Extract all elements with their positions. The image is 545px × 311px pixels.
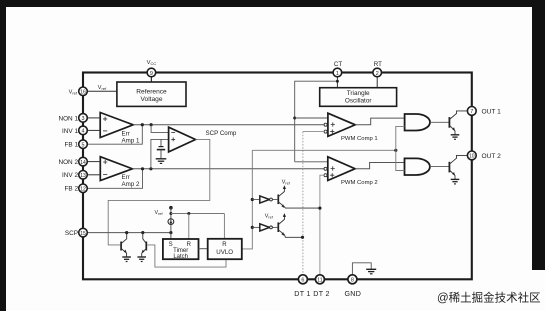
pin 14 NON 2 — [58, 157, 87, 166]
junction enable split — [394, 149, 397, 152]
wire: current source to SCP line and S input — [170, 225, 172, 240]
wire: UVLO output up to enable corner — [242, 150, 253, 249]
pin 13 INV 2 — [62, 171, 87, 180]
svg-text:Amp 1: Amp 1 — [122, 137, 140, 144]
svg-text:NON 1: NON 1 — [58, 115, 78, 122]
svg-text:Oscillator: Oscillator — [345, 98, 373, 105]
svg-text:8: 8 — [351, 278, 354, 284]
svg-text:FB 1: FB 1 — [65, 142, 79, 149]
wire: pin16 Vref to Reference Voltage box — [87, 90, 117, 92]
bubble PWM2 bottom input — [324, 174, 327, 177]
op-amp Err Amp 1 — [100, 113, 140, 145]
transistor Q4 dead-time 2 — [278, 213, 302, 237]
svg-text:Latch: Latch — [173, 254, 188, 260]
wire: AND2 output to Q2 base — [430, 166, 449, 168]
svg-text:2: 2 — [376, 71, 379, 77]
comparator SCP Comp — [169, 127, 237, 152]
block: Reference Voltage — [117, 82, 186, 106]
transistor Q1 output 1 — [449, 111, 467, 135]
battery reference on SCP comp input — [157, 139, 165, 158]
junction EA2 output to SCP comp — [149, 167, 152, 170]
current source for SCP timing — [168, 219, 174, 225]
wire: EA1 node down to SCP comp top input — [151, 125, 169, 133]
block: UVLO — [208, 239, 242, 259]
wire: into inverter 2 — [252, 226, 259, 228]
svg-text:DT 2: DT 2 — [313, 290, 329, 298]
pin 16 Vref — [69, 85, 107, 96]
svg-text:Reference: Reference — [136, 89, 167, 96]
svg-text:SCP: SCP — [65, 230, 78, 237]
ground for Q2 emitter — [451, 179, 460, 184]
svg-text:3: 3 — [82, 116, 85, 122]
node Vref supply arrow above current source — [169, 206, 173, 219]
AND gate 2 — [405, 158, 430, 175]
IC boundary box — [83, 73, 472, 280]
svg-text:Err: Err — [122, 174, 130, 181]
svg-text:SCP Comp: SCP Comp — [206, 130, 237, 137]
wire: into inverter 1 — [252, 199, 259, 201]
wire: Err Amp 1 output to PWM comp 1 — [133, 124, 324, 126]
wire: inverter 2 to Q4 base — [272, 226, 277, 228]
svg-text:PWM Comp 2: PWM Comp 2 — [341, 180, 378, 186]
inverter 2 — [260, 224, 273, 231]
wire: DT1 line from PWM comp 1 bottom input to pin 6 — [303, 131, 324, 133]
svg-text:12: 12 — [80, 187, 86, 193]
wire: sawtooth into PWM comp 1 top input — [295, 117, 328, 119]
junction Q3 emitter to DT2 — [318, 207, 321, 210]
wire: Vcc stub into Reference Voltage box — [150, 73, 152, 82]
svg-text:Voltage: Voltage — [141, 96, 163, 103]
svg-text:14: 14 — [80, 160, 86, 166]
svg-text:OUT 1: OUT 1 — [482, 108, 502, 115]
svg-text:DT 1: DT 1 — [294, 290, 310, 298]
junction EA1 output to SCP comp — [150, 123, 153, 126]
svg-text:PWM Comp 1: PWM Comp 1 — [341, 136, 378, 142]
junction sawtooth to PWM comp 1 — [293, 117, 296, 120]
comparator PWM Comp 1 — [328, 113, 378, 142]
junction FB1 on EA1 output — [141, 123, 144, 126]
svg-text:UVLO: UVLO — [216, 249, 233, 256]
junction FB2 on EA2 output — [141, 167, 144, 170]
pin 2 RT — [373, 61, 382, 77]
junction enable to inverter 1 — [251, 198, 254, 201]
wire: inverter 1 to Q3 base — [272, 199, 277, 201]
ground for T5 — [122, 257, 131, 262]
svg-text:15: 15 — [80, 231, 86, 237]
transistor T6 SCP latch — [142, 233, 147, 257]
svg-text:OUT 2: OUT 2 — [482, 153, 502, 160]
wire: enable line from UVLO node to AND gates — [252, 149, 395, 151]
ground for Q1 emitter — [451, 135, 460, 140]
wire: GND pin hook to ground — [352, 263, 371, 275]
junction T6 collector on SCP line — [141, 231, 144, 234]
svg-text:GND: GND — [344, 290, 361, 298]
wire: SCP comp output down and around to SCP transistor base — [108, 139, 210, 245]
svg-text:INV 2: INV 2 — [62, 172, 78, 179]
wire: Err Amp 2 output to PWM comp 2 — [132, 168, 324, 170]
bubble PWM1 middle input — [324, 123, 327, 126]
pin 11 DT 2 — [313, 275, 329, 298]
transistor Q3 dead-time 1 — [278, 185, 320, 208]
op-amp Err Amp 2 — [100, 157, 140, 189]
ground for SCP battery — [156, 159, 167, 164]
svg-text:Amp 2: Amp 2 — [122, 181, 140, 188]
pin 9 Vcc — [147, 60, 157, 77]
block: Timer Latch — [163, 239, 199, 260]
wire: UVLO bottom feedback to T6 base — [147, 245, 226, 267]
wire: DT2 line from PWM comp 2 bottom input to pin 11 — [320, 175, 324, 274]
pin 15 SCP — [65, 228, 87, 237]
wire: down to UVLO R input — [223, 214, 225, 239]
wire: PWM comp 2 output to AND gate 2 — [355, 163, 404, 169]
wire: PWM comp 1 output to AND gate 1 — [355, 118, 404, 125]
wire: pin4 to Err Amp 1 - input — [87, 129, 100, 131]
wire: sawtooth into PWM comp 2 top input — [295, 161, 328, 163]
svg-text:13: 13 — [80, 173, 86, 179]
svg-text:S: S — [169, 242, 173, 248]
svg-text:Err: Err — [122, 130, 130, 137]
svg-text:R: R — [222, 242, 227, 248]
wire: FB2 feedback loop — [87, 169, 143, 189]
junction T5 collector on SCP line — [125, 231, 128, 234]
svg-text:Vref: Vref — [98, 85, 107, 91]
svg-text:NON 2: NON 2 — [58, 159, 78, 166]
wire: CT stub to oscillator — [336, 73, 338, 88]
pin 10 OUT 2 — [467, 151, 501, 160]
svg-text:16: 16 — [80, 90, 86, 96]
wire: pin3 to Err Amp 1 + input — [87, 117, 100, 119]
dark frame right column — [532, 7, 545, 270]
bubble PWM1 bottom input — [324, 130, 327, 133]
svg-text:Vref: Vref — [69, 90, 78, 96]
pin 3 NON 1 — [58, 114, 87, 123]
wire: AND1 output to Q1 base — [430, 121, 449, 123]
svg-text:Timer: Timer — [173, 248, 188, 254]
pin 6 DT 1 — [294, 275, 310, 298]
wire: down to Timer Latch R input — [188, 214, 190, 240]
junction SCP line at Vref column — [169, 231, 172, 234]
pin 5 FB 1 — [65, 140, 88, 149]
wire: SCP pin line — [87, 232, 171, 234]
wire: Timer Latch to UVLO — [199, 248, 208, 250]
junction Vref column to R line — [169, 212, 172, 215]
pin 12 FB 2 — [65, 184, 88, 193]
ground for T6 — [137, 257, 146, 262]
svg-text:5: 5 — [82, 143, 85, 149]
wire: EA2 node up to SCP comp bottom input — [151, 139, 169, 168]
wire: RT stub to oscillator — [376, 73, 378, 88]
ground for GND pin — [366, 269, 376, 274]
transistor T5 SCP latch — [121, 233, 127, 257]
transistor Q2 output 2 — [449, 155, 467, 179]
junction Q4 emitter to DT1 — [301, 236, 304, 239]
svg-text:RT: RT — [374, 61, 382, 68]
svg-text:FB 2: FB 2 — [65, 186, 79, 193]
dark frame top bar — [0, 0, 545, 7]
pin 4 INV 1 — [62, 126, 87, 135]
svg-text:VCC: VCC — [147, 60, 157, 66]
inverter 1 — [260, 196, 273, 203]
bubble PWM2 middle input — [324, 167, 327, 170]
pin 8 GND — [344, 275, 361, 298]
AND gate 1 — [405, 114, 430, 131]
junction on CT stub — [336, 80, 339, 83]
svg-text:9: 9 — [150, 71, 153, 77]
pin 7 OUT 1 — [467, 107, 501, 116]
svg-text:6: 6 — [301, 278, 304, 284]
wire: enable down to AND2 lower input — [396, 150, 405, 170]
svg-text:CT: CT — [334, 61, 342, 68]
svg-text:1: 1 — [336, 71, 339, 77]
junction enable to inverter 2 — [251, 226, 254, 229]
svg-text:11: 11 — [317, 278, 322, 284]
block: Triangle Oscillator — [320, 88, 397, 107]
svg-text:10: 10 — [469, 154, 475, 160]
svg-text:4: 4 — [82, 129, 85, 135]
dark frame left strip — [0, 7, 6, 311]
svg-text:INV 1: INV 1 — [62, 128, 78, 135]
svg-text:7: 7 — [470, 109, 473, 115]
junction R line to Timer Latch — [187, 212, 190, 215]
wire: oscillator sawtooth feed from CT node — [295, 81, 338, 162]
svg-text:Triangle: Triangle — [347, 90, 370, 97]
comparator PWM Comp 2 — [328, 157, 378, 186]
wire: enable up to AND1 lower input — [396, 126, 405, 150]
wire: pin13 to Err Amp 2 - input — [87, 174, 100, 176]
wire: FB1 feedback loop — [87, 125, 142, 145]
svg-text:@稀土掘金技术社区: @稀土掘金技术社区 — [437, 291, 541, 305]
wire: pin14 to Err Amp 2 + input — [87, 161, 100, 163]
wire: R input line — [171, 213, 225, 215]
pin 1 CT — [333, 61, 342, 77]
